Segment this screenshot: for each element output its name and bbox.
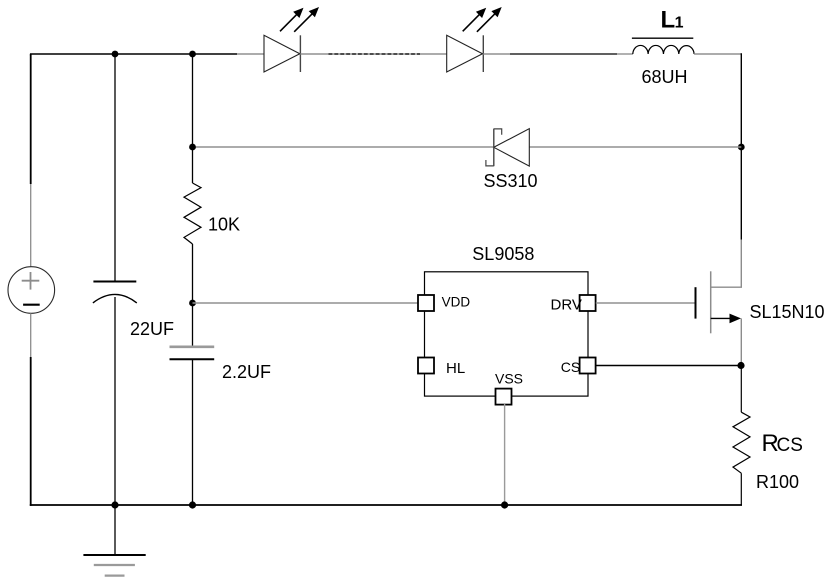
svg-text:DRV: DRV <box>551 297 582 314</box>
wire bottom rail (black) <box>30 504 742 506</box>
node VDD branch <box>189 300 196 307</box>
svg-text:RCS: RCS <box>762 430 803 457</box>
wire VDD row (gray) <box>193 302 419 304</box>
wire top rail middle (black) <box>510 53 617 55</box>
svg-text:CS: CS <box>561 359 580 375</box>
node diode row left <box>189 144 196 151</box>
svg-text:SS310: SS310 <box>484 171 538 191</box>
wire dashed segment <box>329 53 421 55</box>
svg-text:R100: R100 <box>756 472 799 492</box>
wire R1 branch top (black) <box>192 54 194 183</box>
svg-text:VSS: VSS <box>495 371 523 387</box>
ground <box>83 555 145 576</box>
svg-text:SL9058: SL9058 <box>472 244 534 264</box>
pin HL (U1) <box>418 358 465 378</box>
LED D2 <box>447 7 502 72</box>
svg-text:L1: L1 <box>661 7 684 34</box>
pin DRV (U1) <box>551 295 596 314</box>
wire diode row left (gray) <box>193 146 494 148</box>
wire C1 branch bottom (black) <box>114 297 116 505</box>
node ground C1 <box>111 501 118 508</box>
wire C2 bottom (black) <box>192 359 194 505</box>
wire LED2 cathode lead (gray) <box>483 53 510 55</box>
wire Rcs bottom (black) <box>740 473 742 505</box>
node VSS-ground <box>501 501 508 508</box>
capacitor C2 2.2UF <box>170 347 215 359</box>
inductor L1 <box>633 45 694 54</box>
svg-text:HL: HL <box>446 360 465 377</box>
wire inductor left lead (gray) <box>617 53 633 55</box>
wire left rail below source (gray) <box>30 313 32 357</box>
wire top rail left (black) <box>31 54 237 56</box>
wire ground stem (black) <box>114 505 116 555</box>
pin VSS (U1) <box>495 371 523 405</box>
wire source to CS node (gray) <box>740 318 742 365</box>
wire CS node to Rcs (black) <box>740 366 742 413</box>
svg-text:22UF: 22UF <box>130 319 174 339</box>
wire C1 branch top (black) <box>114 54 116 282</box>
pin VDD (U1) <box>418 295 470 312</box>
resistor Rcs <box>733 412 750 473</box>
pin CS (U1) <box>561 358 596 376</box>
wire VSS branch (gray) <box>504 404 506 505</box>
diode D3 (schottky) <box>486 129 529 167</box>
MOSFET Q1 <box>696 271 742 333</box>
LED D1 <box>264 7 319 72</box>
node top rail R1 branch <box>189 51 196 58</box>
wire right rail upper (black) <box>740 53 742 239</box>
wire LED1 anode lead (gray) <box>237 53 264 55</box>
wire DRV to gate (gray) <box>596 302 695 304</box>
wire inductor right lead (gray) <box>694 53 741 55</box>
resistor R1 10K <box>184 183 201 244</box>
voltage source V1 <box>8 267 55 314</box>
svg-text:2.2UF: 2.2UF <box>222 362 271 382</box>
wire left rail top (black) <box>30 54 32 184</box>
svg-text:SL15N10: SL15N10 <box>750 302 825 322</box>
svg-text:VDD: VDD <box>442 295 471 310</box>
wire right rail to drain (gray) <box>711 240 742 288</box>
node top rail C1 <box>112 51 119 58</box>
wire left rail mid (gray) <box>30 184 32 267</box>
node ground C2 branch <box>189 501 196 508</box>
wire LED1 to LED2 (gray) <box>300 53 446 55</box>
node diode row right <box>738 144 745 151</box>
svg-text:10K: 10K <box>208 215 240 235</box>
wire left rail bottom (black) <box>30 357 32 506</box>
wire R1 to VDD node (black) <box>192 244 194 347</box>
wire diode row right (gray) <box>529 146 741 148</box>
wire CS row (black) <box>596 365 742 367</box>
svg-text:68UH: 68UH <box>642 67 688 87</box>
label L1 <box>632 7 693 39</box>
node CS-source <box>737 362 744 369</box>
IC U1 SL9058 body <box>425 272 589 396</box>
capacitor C1 22UF <box>93 282 137 303</box>
